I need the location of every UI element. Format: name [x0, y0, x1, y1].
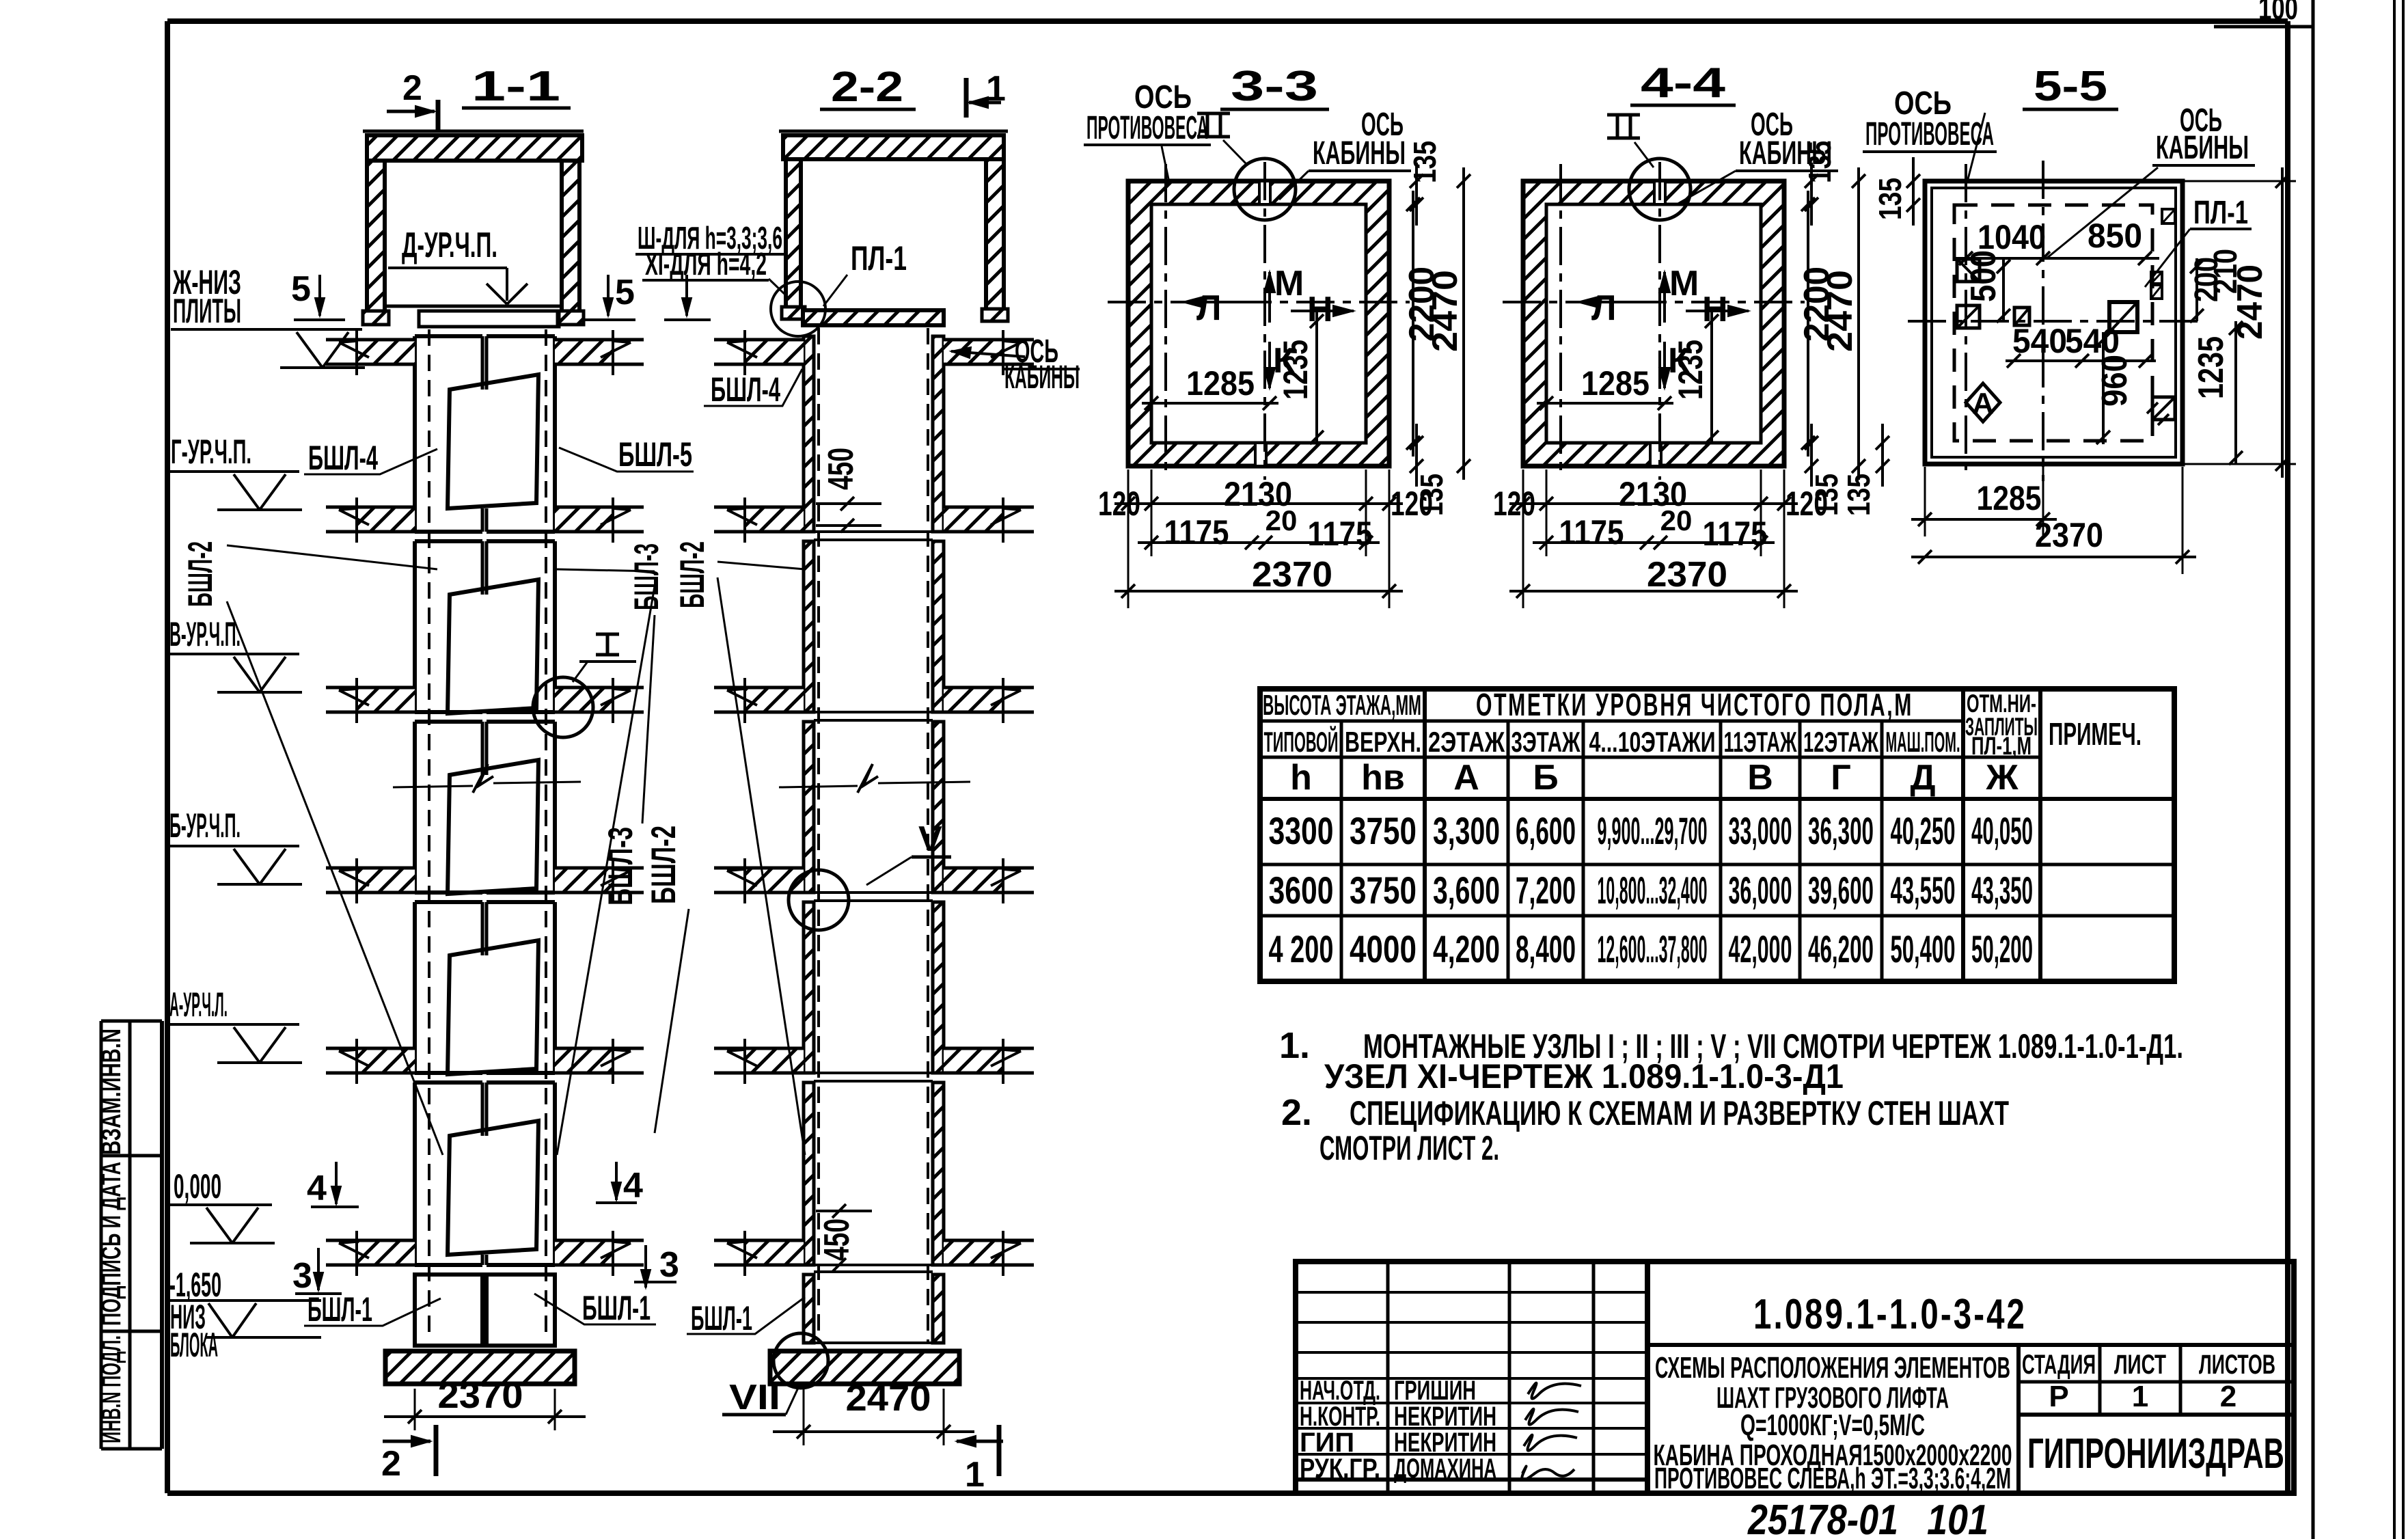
- svg-text:А: А: [1453, 758, 1479, 798]
- svg-text:ПОДПИСЬ И ДАТА: ПОДПИСЬ И ДАТА: [96, 1162, 126, 1326]
- svg-text:А-УР.Ч.Л.: А-УР.Ч.Л.: [169, 985, 228, 1024]
- svg-text:ПЛ-1: ПЛ-1: [2193, 195, 2248, 231]
- svg-text:hв: hв: [1361, 758, 1405, 798]
- svg-text:36,000: 36,000: [1729, 869, 1792, 912]
- svg-text:Г-УР.Ч.П.: Г-УР.Ч.П.: [171, 433, 251, 471]
- svg-text:120: 120: [1493, 485, 1535, 523]
- svg-text:36,300: 36,300: [1808, 809, 1874, 852]
- svg-text:БШЛ-3: БШЛ-3: [601, 827, 640, 905]
- svg-text:20: 20: [1660, 504, 1693, 536]
- svg-text:2370: 2370: [1647, 555, 1727, 595]
- svg-text:3: 3: [292, 1256, 312, 1296]
- svg-text:100: 100: [2258, 0, 2298, 26]
- svg-text:БШЛ-4: БШЛ-4: [711, 370, 780, 409]
- svg-text:МАШ.ПОМ.: МАШ.ПОМ.: [1886, 726, 1960, 758]
- svg-text:БШЛ-4: БШЛ-4: [308, 439, 378, 477]
- svg-text:ОТМЕТКИ УРОВНЯ ЧИСТОГО ПОЛА,М: ОТМЕТКИ УРОВНЯ ЧИСТОГО ПОЛА,М: [1476, 687, 1913, 722]
- svg-text:1.: 1.: [1279, 1025, 1310, 1066]
- svg-text:50,200: 50,200: [1971, 927, 2033, 970]
- svg-text:135: 135: [1841, 474, 1876, 516]
- svg-text:Г: Г: [1831, 758, 1850, 798]
- svg-text:40,050: 40,050: [1971, 809, 2033, 852]
- svg-text:3,300: 3,300: [1433, 809, 1500, 852]
- svg-text:33,000: 33,000: [1729, 809, 1792, 852]
- svg-text:КАБИНЫ: КАБИНЫ: [2156, 130, 2249, 166]
- svg-text:2-2: 2-2: [831, 64, 903, 111]
- svg-text:4,200: 4,200: [1433, 927, 1500, 970]
- svg-text:Б: Б: [1533, 758, 1558, 798]
- svg-text:12ЭТАЖ: 12ЭТАЖ: [1803, 726, 1879, 758]
- svg-text:ПЛ-1: ПЛ-1: [851, 239, 907, 277]
- svg-text:СТАДИЯ: СТАДИЯ: [2022, 1350, 2096, 1380]
- svg-text:50,400: 50,400: [1891, 927, 1956, 970]
- svg-text:КАБИНЫ: КАБИНЫ: [1004, 359, 1080, 396]
- svg-text:ЛИСТ: ЛИСТ: [2114, 1350, 2166, 1380]
- svg-text:2370: 2370: [2035, 516, 2103, 554]
- svg-text:1.089.1-1.0-3-42: 1.089.1-1.0-3-42: [1753, 1291, 2027, 1338]
- svg-text:0,000: 0,000: [174, 1167, 221, 1206]
- svg-text:4: 4: [307, 1169, 327, 1208]
- svg-text:40,250: 40,250: [1891, 809, 1956, 852]
- svg-text:1235: 1235: [2191, 336, 2231, 399]
- svg-text:БШЛ-3: БШЛ-3: [627, 543, 666, 610]
- svg-text:3300: 3300: [1269, 809, 1334, 852]
- svg-text:ВЫСОТА ЭТАЖА,ММ: ВЫСОТА ЭТАЖА,ММ: [1263, 689, 1421, 721]
- svg-text:43,350: 43,350: [1971, 869, 2033, 912]
- svg-text:39,600: 39,600: [1808, 869, 1874, 912]
- svg-text:500: 500: [1964, 250, 2003, 302]
- svg-text:46,200: 46,200: [1808, 927, 1874, 970]
- svg-text:2: 2: [381, 1444, 401, 1484]
- svg-text:ПРОТИВОВЕСА: ПРОТИВОВЕСА: [1865, 116, 1994, 152]
- svg-text:10,800...32,400: 10,800...32,400: [1598, 869, 1708, 912]
- svg-text:3ЭТАЖ: 3ЭТАЖ: [1511, 726, 1581, 758]
- svg-text:Л: Л: [1196, 288, 1222, 328]
- svg-text:Р: Р: [2049, 1380, 2068, 1413]
- svg-text:СХЕМЫ РАСПОЛОЖЕНИЯ ЭЛЕМЕНТОВ: СХЕМЫ РАСПОЛОЖЕНИЯ ЭЛЕМЕНТОВ: [1655, 1351, 2010, 1385]
- svg-text:Л: Л: [1591, 288, 1617, 328]
- svg-text:ГИПРОНИИЗДРАВ: ГИПРОНИИЗДРАВ: [2027, 1430, 2284, 1477]
- svg-text:КАБИНЫ: КАБИНЫ: [1739, 135, 1832, 172]
- svg-text:4...10ЭТАЖИ: 4...10ЭТАЖИ: [1589, 726, 1716, 758]
- svg-text:УЗЕЛ XI-ЧЕРТЕЖ 1.089.1-1.0-: УЗЕЛ XI-ЧЕРТЕЖ 1.089.1-1.0-3-Д1: [1324, 1057, 1844, 1095]
- svg-text:БШЛ-1: БШЛ-1: [582, 1289, 651, 1327]
- svg-text:120: 120: [1391, 485, 1433, 523]
- svg-text:1: 1: [2132, 1380, 2148, 1413]
- svg-text:1235: 1235: [1276, 340, 1315, 400]
- svg-text:9,900...29,700: 9,900...29,700: [1598, 809, 1708, 852]
- svg-text:ПРОТИВОВЕСА: ПРОТИВОВЕСА: [1086, 110, 1208, 146]
- svg-text:4-4: 4-4: [1641, 59, 1726, 107]
- svg-text:540: 540: [2065, 322, 2120, 360]
- svg-text:СМОТРИ ЛИСТ 2.: СМОТРИ ЛИСТ 2.: [1319, 1129, 1499, 1167]
- svg-text:450: 450: [817, 1218, 857, 1261]
- svg-text:Б-УР.Ч.П.: Б-УР.Ч.П.: [169, 806, 241, 845]
- svg-text:Д: Д: [1910, 758, 1935, 798]
- svg-text:ПЛИТЫ: ПЛИТЫ: [173, 292, 241, 330]
- svg-text:2ЭТАЖ: 2ЭТАЖ: [1428, 726, 1505, 758]
- svg-text:11ЭТАЖ: 11ЭТАЖ: [1724, 726, 1798, 758]
- svg-text:КАБИНЫ: КАБИНЫ: [1313, 135, 1406, 172]
- svg-text:20: 20: [1265, 504, 1298, 536]
- svg-text:ЛИСТОВ: ЛИСТОВ: [2199, 1350, 2275, 1380]
- svg-text:ПЛ-1,М: ПЛ-1,М: [1971, 732, 2031, 760]
- svg-text:1175: 1175: [1703, 515, 1768, 553]
- svg-text:8,400: 8,400: [1516, 927, 1576, 970]
- svg-text:1175: 1175: [1559, 513, 1624, 551]
- svg-text:1175: 1175: [1308, 515, 1373, 553]
- svg-text:1285: 1285: [1977, 479, 2042, 517]
- svg-text:5: 5: [615, 273, 635, 312]
- svg-text:4: 4: [623, 1166, 643, 1206]
- svg-text:БШЛ-2: БШЛ-2: [673, 541, 711, 608]
- svg-text:Д-УР.Ч.П.: Д-УР.Ч.П.: [402, 226, 497, 265]
- svg-text:4000: 4000: [1350, 927, 1417, 970]
- svg-text:XI-ДЛЯ h=4,2: XI-ДЛЯ h=4,2: [645, 246, 767, 282]
- svg-text:4 200: 4 200: [1269, 927, 1334, 970]
- svg-text:5-5: 5-5: [2034, 63, 2107, 110]
- svg-text:2470: 2470: [1820, 270, 1860, 352]
- svg-text:850: 850: [2088, 217, 2142, 255]
- svg-text:2.: 2.: [1281, 1092, 1312, 1133]
- svg-text:V: V: [918, 819, 942, 859]
- svg-text:М: М: [1669, 264, 1699, 303]
- svg-text:7,200: 7,200: [1516, 869, 1576, 912]
- svg-text:РУК.ГР.: РУК.ГР.: [1300, 1454, 1380, 1484]
- svg-text:3750: 3750: [1350, 809, 1417, 852]
- svg-text:2470: 2470: [2230, 264, 2270, 340]
- svg-text:БШЛ-2: БШЛ-2: [181, 541, 219, 607]
- svg-text:960: 960: [2095, 355, 2135, 407]
- svg-text:1235: 1235: [1671, 340, 1710, 400]
- svg-text:h: h: [1290, 758, 1312, 798]
- svg-text:5: 5: [291, 269, 311, 309]
- svg-text:120: 120: [1786, 485, 1828, 523]
- svg-text:А: А: [1972, 387, 1994, 420]
- svg-text:6,600: 6,600: [1516, 809, 1576, 852]
- svg-text:БЛОКА: БЛОКА: [170, 1326, 218, 1364]
- svg-text:1: 1: [965, 1455, 985, 1495]
- svg-text:Q=1000КГ;V=0,5М/С: Q=1000КГ;V=0,5М/С: [1740, 1408, 1925, 1442]
- svg-text:3750: 3750: [1350, 869, 1417, 912]
- svg-text:135: 135: [1872, 178, 1908, 220]
- svg-text:2370: 2370: [1252, 555, 1332, 595]
- svg-text:СПЕЦИФИКАЦИЮ К СХЕМАМ И РА: СПЕЦИФИКАЦИЮ К СХЕМАМ И РАЗВЕРТКУ СТЕН Ш…: [1350, 1094, 2009, 1132]
- svg-text:БШЛ-5: БШЛ-5: [618, 435, 692, 474]
- svg-text:135: 135: [1407, 141, 1442, 183]
- svg-text:3-3: 3-3: [1231, 63, 1318, 110]
- svg-text:М: М: [1274, 264, 1304, 303]
- svg-text:ТИПОВОЙ: ТИПОВОЙ: [1264, 725, 1339, 758]
- svg-text:43,550: 43,550: [1891, 869, 1956, 912]
- svg-text:ПРОТИВОВЕС СЛЕВА,h ЭТ.=3,3;3.6: ПРОТИВОВЕС СЛЕВА,h ЭТ.=3,3;3.6;4,2М: [1654, 1462, 2011, 1495]
- svg-text:2370: 2370: [438, 1375, 523, 1416]
- svg-text:3,600: 3,600: [1433, 869, 1500, 912]
- svg-text:1285: 1285: [1581, 364, 1650, 403]
- svg-text:12,600...37,800: 12,600...37,800: [1598, 927, 1708, 970]
- svg-text:42,000: 42,000: [1729, 927, 1792, 970]
- svg-text:ИНВ.N ПОДЛ.: ИНВ.N ПОДЛ.: [96, 1335, 126, 1443]
- svg-text:В: В: [1747, 758, 1773, 798]
- svg-text:ПРИМЕЧ.: ПРИМЕЧ.: [2049, 716, 2142, 752]
- svg-text:1175: 1175: [1164, 513, 1229, 551]
- svg-text:БШЛ-1: БШЛ-1: [691, 1299, 752, 1337]
- svg-text:2: 2: [2220, 1380, 2236, 1413]
- svg-text:БШЛ-2: БШЛ-2: [644, 826, 683, 904]
- svg-text:3600: 3600: [1269, 869, 1334, 912]
- svg-text:2470: 2470: [1425, 270, 1465, 352]
- svg-text:25178-01: 25178-01: [1747, 1497, 1898, 1539]
- svg-text:101: 101: [1927, 1497, 1988, 1539]
- svg-text:ВЕРХН.: ВЕРХН.: [1345, 726, 1421, 758]
- svg-text:В-УР.Ч.П.: В-УР.Ч.П.: [169, 615, 241, 653]
- svg-text:ДОМАХИНА: ДОМАХИНА: [1394, 1454, 1496, 1484]
- svg-text:Ж: Ж: [1986, 758, 2019, 798]
- svg-text:2470: 2470: [846, 1378, 931, 1419]
- svg-text:450: 450: [821, 448, 861, 490]
- svg-text:БШЛ-1: БШЛ-1: [307, 1290, 372, 1329]
- svg-text:VII: VII: [729, 1378, 780, 1417]
- svg-text:1-1: 1-1: [471, 63, 560, 110]
- svg-text:120: 120: [1098, 485, 1140, 523]
- svg-text:ВЗАМ.ИНВ.N: ВЗАМ.ИНВ.N: [96, 1029, 126, 1155]
- svg-text:1285: 1285: [1186, 364, 1255, 403]
- svg-text:2: 2: [402, 68, 422, 108]
- svg-text:3: 3: [659, 1245, 679, 1285]
